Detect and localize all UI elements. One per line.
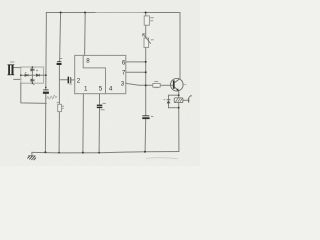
svg-text:4: 4 [109, 85, 113, 92]
svg-text:5: 5 [99, 85, 103, 92]
svg-text:3: 3 [121, 80, 125, 87]
svg-text:2: 2 [77, 78, 81, 85]
svg-text:1: 1 [84, 85, 88, 92]
svg-text:7: 7 [122, 69, 126, 76]
svg-text:6: 6 [122, 59, 126, 66]
svg-text:8: 8 [86, 57, 90, 64]
